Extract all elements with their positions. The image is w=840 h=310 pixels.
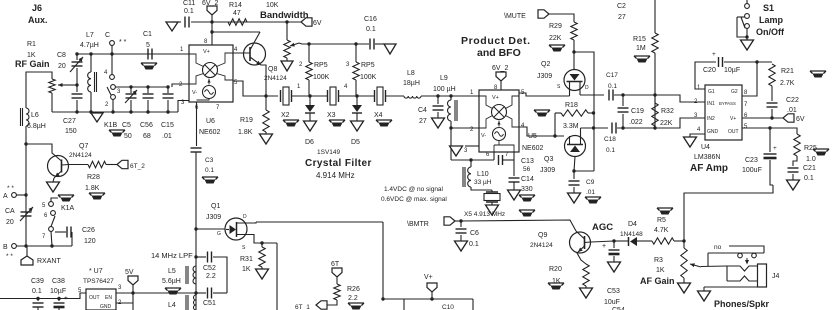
svg-text:Q9: Q9 bbox=[538, 232, 547, 239]
node C terminal bbox=[110, 41, 115, 46]
svg-text:L10: L10 bbox=[477, 171, 489, 178]
wire column to Q1 gate bbox=[196, 228, 226, 230]
ground arrow on rail bbox=[91, 113, 103, 122]
ground arrow jack sleeve bbox=[698, 291, 711, 301]
U6 internal leads bbox=[189, 54, 204, 67]
potentiometer R3 AF Gain bbox=[681, 248, 687, 278]
svg-text:.01: .01 bbox=[162, 133, 172, 140]
relay K1A arm bbox=[51, 216, 55, 227]
wire U5 pin4 to Q3 bbox=[519, 127, 564, 136]
ground arrow under R20 bbox=[580, 288, 593, 298]
svg-text:0.1: 0.1 bbox=[205, 167, 214, 174]
svg-text:NE602: NE602 bbox=[199, 129, 221, 136]
svg-text:* *: * * bbox=[119, 39, 127, 46]
box bottom block bbox=[403, 299, 405, 310]
wire C20 node to U4 pin8 bbox=[742, 62, 757, 96]
svg-text:56: 56 bbox=[523, 166, 531, 173]
svg-text:C39: C39 bbox=[31, 278, 44, 285]
svg-text:C27: C27 bbox=[63, 118, 76, 125]
chassis ground above R5 bbox=[657, 208, 673, 211]
wire U4 pin5 output bbox=[742, 127, 793, 129]
svg-text:6V: 6V bbox=[796, 116, 805, 123]
wire Q2 drain to C17 bbox=[580, 94, 604, 96]
wire AF output down to pot bbox=[684, 185, 773, 248]
wire R14 to bandwidth pot node bbox=[247, 21, 301, 23]
svg-text:G1: G1 bbox=[708, 89, 715, 95]
chassis ground left of column bbox=[165, 288, 181, 291]
svg-text:IN2: IN2 bbox=[707, 116, 715, 122]
jack RXANT bbox=[26, 246, 28, 256]
svg-text:AF Amp: AF Amp bbox=[690, 163, 728, 174]
wire U6 pin3 to rail bbox=[178, 101, 189, 113]
svg-text:J6: J6 bbox=[32, 3, 42, 13]
wire U6 pin5 to filter bbox=[233, 81, 278, 96]
svg-text:CA: CA bbox=[5, 208, 15, 215]
relay K1B pin 2 bbox=[111, 95, 116, 100]
ground arrow under C53 bbox=[608, 262, 621, 272]
svg-text:1K: 1K bbox=[27, 52, 36, 59]
svg-text:Crystal Filter: Crystal Filter bbox=[305, 158, 372, 169]
svg-text:L8: L8 bbox=[407, 70, 415, 77]
svg-text:V+: V+ bbox=[730, 116, 736, 122]
ground arrow under C4 bbox=[432, 118, 445, 128]
ground arrow U5 pin3 bbox=[450, 146, 463, 156]
chassis ground under X3 bbox=[329, 120, 345, 123]
wire R1 top loop bbox=[26, 72, 52, 108]
crystal X5 bbox=[491, 190, 493, 192]
svg-text:J4: J4 bbox=[772, 273, 780, 280]
svg-text:R15: R15 bbox=[633, 36, 646, 43]
svg-text:BYPASS: BYPASS bbox=[719, 101, 736, 106]
svg-text:120: 120 bbox=[84, 238, 96, 245]
chassis ground under C1 bbox=[141, 63, 157, 66]
crystal X4 bbox=[375, 90, 386, 102]
U4 pin4 ground bbox=[690, 134, 705, 137]
trimmer capacitor CA bbox=[21, 211, 32, 213]
svg-text:X2: X2 bbox=[281, 112, 290, 119]
svg-text:no: no bbox=[714, 244, 722, 251]
svg-text:0.1: 0.1 bbox=[804, 175, 814, 182]
inductor L7 bbox=[90, 54, 92, 72]
svg-text:L9: L9 bbox=[440, 75, 448, 82]
svg-text:AGC: AGC bbox=[592, 222, 613, 233]
svg-text:C20: C20 bbox=[703, 67, 716, 74]
svg-text:L6: L6 bbox=[31, 112, 39, 119]
capacitor C4 bbox=[437, 96, 439, 104]
capacitor C23 bbox=[769, 128, 771, 152]
capacitor C6 bbox=[460, 221, 462, 227]
chassis ground right of X5 label bbox=[519, 210, 535, 213]
IC U5 NE602 box bbox=[479, 90, 519, 152]
svg-text:C11: C11 bbox=[183, 0, 195, 7]
svg-text:1.8K: 1.8K bbox=[238, 129, 253, 136]
wire C11 to R14 bbox=[191, 21, 247, 23]
supply flag 6V right bbox=[783, 114, 794, 122]
svg-text:* *: * * bbox=[6, 253, 13, 260]
wire U7 pin2 stub bbox=[116, 302, 133, 304]
output flag 6T_1 bbox=[327, 300, 337, 305]
chassis ground right of R26 bbox=[348, 303, 364, 306]
svg-text:C4: C4 bbox=[418, 107, 427, 114]
capacitor C9 bbox=[573, 171, 575, 179]
wire R29 to Q2 gate bbox=[573, 40, 575, 70]
svg-text:1N4148: 1N4148 bbox=[620, 231, 643, 238]
relay K1B pin 4 bbox=[110, 75, 115, 80]
svg-text:2.2: 2.2 bbox=[348, 295, 358, 302]
resistor R15 bbox=[652, 33, 658, 53]
resistor R25 bbox=[793, 128, 797, 134]
svg-text:C8: C8 bbox=[57, 52, 66, 59]
svg-text:Q8: Q8 bbox=[268, 66, 277, 73]
resistor R26 bbox=[334, 284, 340, 300]
svg-text:Q2: Q2 bbox=[541, 61, 550, 68]
chassis ground K1A bbox=[58, 195, 74, 198]
capacitor C1 bbox=[148, 49, 152, 60]
svg-text:V+: V+ bbox=[203, 49, 210, 55]
svg-text:2.7K: 2.7K bbox=[780, 80, 795, 87]
svg-text:G2: G2 bbox=[731, 89, 738, 95]
wire K1A pin7 down bbox=[51, 231, 52, 246]
diode D4 1N4148 bbox=[614, 240, 628, 242]
svg-text:K1A: K1A bbox=[61, 205, 75, 212]
capacitor C52 bbox=[196, 256, 206, 258]
svg-text:68: 68 bbox=[143, 133, 151, 140]
svg-text:18µH: 18µH bbox=[403, 80, 420, 87]
wire Q3 drain to C18 bbox=[581, 127, 609, 129]
capacitor C51 bbox=[196, 292, 206, 294]
svg-text:R29: R29 bbox=[549, 23, 562, 30]
svg-text:27: 27 bbox=[419, 118, 427, 125]
wire U5 pin7 down bbox=[513, 152, 515, 176]
jack J4 body bbox=[758, 264, 767, 287]
capacitor C56 bbox=[147, 87, 149, 93]
U5 oscillator circle bbox=[493, 128, 506, 141]
switch S1 bbox=[745, 4, 750, 9]
svg-text:20: 20 bbox=[6, 219, 14, 226]
svg-text:OUT: OUT bbox=[89, 295, 100, 301]
svg-text:.01: .01 bbox=[586, 189, 595, 196]
inductor L10 bbox=[470, 160, 472, 167]
capacitor C19 bbox=[622, 95, 624, 106]
svg-text:10µF: 10µF bbox=[724, 67, 740, 74]
potentiometer R1 bbox=[49, 79, 55, 93]
svg-text:C17: C17 bbox=[606, 72, 618, 79]
svg-text:D: D bbox=[585, 85, 589, 91]
wire B rail bbox=[16, 245, 72, 247]
svg-text:C1: C1 bbox=[143, 31, 152, 38]
svg-text:0.6VDC @ max. signal: 0.6VDC @ max. signal bbox=[381, 196, 447, 203]
resistor R32 bbox=[652, 103, 658, 126]
U5 pin3 ground bbox=[465, 145, 479, 147]
capacitor C15 bbox=[167, 87, 169, 93]
svg-text:R5: R5 bbox=[657, 217, 666, 224]
svg-text:S1: S1 bbox=[763, 3, 774, 13]
wire 6V_2 branch to Q8 collector bbox=[212, 31, 260, 33]
svg-text:Product Det.: Product Det. bbox=[461, 35, 531, 47]
svg-text:C9: C9 bbox=[586, 179, 595, 186]
wire R3 wiper to jack bbox=[701, 265, 727, 268]
jack J4 sleeve line bbox=[704, 286, 757, 288]
filter wire X3-X4 bbox=[339, 95, 375, 97]
svg-text:J309: J309 bbox=[206, 214, 221, 221]
inductor L4 bbox=[194, 295, 197, 310]
trimmer capacitor C5 bbox=[130, 87, 132, 93]
svg-text:L4: L4 bbox=[168, 302, 176, 309]
ground rail under front end bbox=[52, 111, 178, 113]
svg-text:1.4VDC @ no signal: 1.4VDC @ no signal bbox=[384, 186, 444, 193]
svg-text:R20: R20 bbox=[549, 266, 562, 273]
Q7 base lead to R28 bbox=[62, 164, 89, 167]
svg-text:1K: 1K bbox=[656, 267, 665, 274]
svg-text:C51: C51 bbox=[203, 300, 216, 307]
svg-text:RF Gain: RF Gain bbox=[15, 59, 50, 69]
trimmer capacitor C8 bbox=[76, 54, 78, 60]
filter wire X2-X3 bbox=[292, 95, 328, 97]
svg-text:R26: R26 bbox=[347, 286, 360, 293]
chassis ground right of C3 bbox=[202, 177, 218, 180]
jack J4 vertical bus bbox=[726, 266, 728, 281]
U5 mixer circle bbox=[492, 105, 507, 120]
svg-text:.022: .022 bbox=[629, 119, 643, 126]
chassis ground right of R25 bbox=[813, 149, 829, 152]
svg-text:TPS76427: TPS76427 bbox=[83, 278, 114, 285]
svg-text:10uF: 10uF bbox=[604, 299, 620, 306]
resistor R31 bbox=[260, 241, 263, 244]
svg-text:100uF: 100uF bbox=[742, 167, 762, 174]
svg-text:R14: R14 bbox=[229, 2, 242, 9]
transistor Q2 J309 bbox=[564, 70, 585, 91]
svg-text:X3: X3 bbox=[327, 112, 336, 119]
svg-text:1K: 1K bbox=[242, 266, 251, 273]
ground arrow under Q7 bbox=[47, 182, 60, 192]
svg-text:and BFO: and BFO bbox=[477, 47, 521, 59]
svg-text:* U7: * U7 bbox=[89, 268, 103, 275]
wire K1B pin2 to rail bbox=[112, 99, 114, 112]
svg-text:2N4124: 2N4124 bbox=[530, 242, 553, 249]
svg-text:2.2: 2.2 bbox=[206, 273, 216, 280]
svg-text:* *: * * bbox=[7, 185, 14, 192]
svg-text:C13: C13 bbox=[521, 158, 534, 165]
svg-text:RXANT: RXANT bbox=[37, 258, 61, 265]
wire U6 pin4 to Q8 base bbox=[233, 52, 250, 54]
svg-text:C16: C16 bbox=[364, 16, 377, 23]
ground arrow under C6 bbox=[455, 241, 468, 251]
svg-text:J309: J309 bbox=[537, 73, 552, 80]
capacitor C17 bbox=[609, 90, 613, 101]
wire main RX column bbox=[195, 152, 197, 310]
capacitor C22 bbox=[767, 102, 778, 104]
wire C18 to U4 pin3 bbox=[617, 118, 705, 128]
svg-text:0.1: 0.1 bbox=[32, 288, 42, 295]
wire U7 pin3 to LPF bbox=[116, 292, 196, 294]
wire top rail to U6 pin1 bbox=[77, 53, 189, 55]
wire R1 wiper node bbox=[71, 84, 77, 86]
output flag 6T_2 bbox=[117, 160, 128, 168]
wire K1A pin5 to chassis bbox=[51, 198, 58, 202]
jack J4 actuation arrow bbox=[746, 258, 748, 261]
crystal X3 bbox=[328, 90, 339, 102]
svg-text:1SV149: 1SV149 bbox=[317, 149, 341, 156]
resistor R5 bbox=[652, 238, 674, 244]
svg-text:0.1: 0.1 bbox=[608, 83, 617, 90]
wire bandwidth wiper to varactor bias rail bbox=[299, 43, 369, 44]
ground arrow right of C16 bbox=[384, 44, 396, 54]
svg-text:C21: C21 bbox=[803, 165, 816, 172]
chassis ground right of C9 bbox=[585, 197, 601, 200]
svg-text:R1: R1 bbox=[27, 41, 36, 48]
svg-text:J309: J309 bbox=[540, 167, 555, 174]
svg-text:On/Off: On/Off bbox=[756, 27, 785, 37]
wire BMTR flag bbox=[455, 220, 461, 222]
wire MUTE branch down bbox=[574, 52, 594, 171]
wire MUTE to R29 bbox=[549, 14, 574, 22]
svg-text:10µF: 10µF bbox=[50, 288, 66, 295]
ground arrow under D5 bbox=[351, 121, 364, 131]
svg-text:GND: GND bbox=[707, 129, 719, 135]
svg-text:LM386N: LM386N bbox=[694, 154, 720, 161]
svg-text:C6: C6 bbox=[470, 230, 479, 237]
capacitor C14 bbox=[509, 177, 520, 179]
svg-text:+: + bbox=[64, 295, 68, 302]
capacitor C3 bbox=[196, 113, 198, 146]
svg-text:.01: .01 bbox=[787, 107, 797, 114]
svg-text:0.1: 0.1 bbox=[184, 8, 194, 15]
svg-text:\BMTR: \BMTR bbox=[407, 221, 429, 228]
inductor L8 bbox=[404, 96, 421, 98]
svg-text:150: 150 bbox=[65, 128, 77, 135]
ground arrow under C21 bbox=[787, 180, 800, 190]
svg-text:6T_1: 6T_1 bbox=[295, 304, 310, 310]
svg-text:G: G bbox=[217, 231, 221, 237]
potentiometer bandwidth bbox=[284, 40, 290, 58]
inductor L6 bbox=[26, 108, 29, 126]
wire bottom rail to box bbox=[383, 298, 473, 300]
IC U4 LM386 box bbox=[705, 85, 742, 140]
resistor R28 bbox=[88, 161, 106, 167]
svg-text:+: + bbox=[602, 243, 606, 250]
chassis ground left of R20 bbox=[548, 283, 564, 286]
svg-text:22K: 22K bbox=[660, 120, 673, 127]
svg-text:C23: C23 bbox=[745, 157, 758, 164]
svg-text:EN: EN bbox=[105, 295, 112, 301]
capacitor C27 bbox=[76, 85, 78, 92]
wire 5V input rail bbox=[0, 293, 86, 299]
svg-text:Bandwidth: Bandwidth bbox=[260, 10, 309, 21]
svg-text:\MUTE: \MUTE bbox=[504, 13, 526, 20]
wire Q9 to C53 node bbox=[585, 241, 615, 243]
svg-text:100K: 100K bbox=[360, 74, 377, 81]
transistor Q9 2N4124 bbox=[570, 232, 591, 253]
svg-text:C2: C2 bbox=[617, 3, 626, 10]
wire column to Q7 collector bbox=[26, 144, 52, 150]
svg-text:100K: 100K bbox=[313, 74, 330, 81]
wire C17 to U4 pin2 bbox=[614, 95, 705, 102]
svg-text:50: 50 bbox=[124, 133, 132, 140]
capacitor C13 bbox=[499, 155, 503, 165]
Q7 emitter bbox=[54, 171, 62, 178]
relay K1B pin 3 bbox=[111, 85, 116, 90]
svg-text:C15: C15 bbox=[161, 122, 174, 129]
wire R15 down to C18 line bbox=[654, 53, 656, 128]
svg-text:C56: C56 bbox=[140, 122, 153, 129]
wire U7 pin2 column bbox=[132, 293, 134, 310]
capacitor C20 gain loop bbox=[695, 62, 716, 89]
svg-text:6.8µH: 6.8µH bbox=[27, 123, 46, 130]
svg-text:GND: GND bbox=[100, 304, 112, 310]
svg-text:C53: C53 bbox=[607, 288, 620, 295]
resistor R20 bbox=[583, 264, 589, 286]
varactor diode D6 bbox=[309, 96, 311, 105]
svg-text:RP5: RP5 bbox=[361, 62, 375, 69]
wire Q3 gate bbox=[574, 157, 575, 172]
wire R21 to C22 bbox=[771, 86, 773, 101]
ground arrow U4 pin4 bbox=[684, 137, 697, 147]
svg-text:33 µH: 33 µH bbox=[474, 179, 492, 186]
chassis ground left of R15 bbox=[634, 56, 650, 59]
svg-text:AF Gain: AF Gain bbox=[640, 276, 675, 286]
inductor L5 bbox=[193, 266, 196, 284]
svg-text:U6: U6 bbox=[206, 118, 215, 125]
svg-text:V-: V- bbox=[192, 90, 197, 96]
wire AGC line to Q9 bbox=[461, 220, 576, 231]
svg-text:22K: 22K bbox=[549, 35, 562, 42]
wire L9 bottom to U5 pin2 bbox=[451, 127, 479, 129]
wire L8 to U5 pin1 bbox=[421, 95, 479, 97]
svg-text:C10: C10 bbox=[442, 304, 454, 310]
varactor diode D5 bbox=[356, 96, 358, 105]
chassis ground under R29 label bbox=[549, 45, 565, 48]
chassis ground right of R21 bbox=[810, 71, 826, 74]
transistor Q8 2N4124 bbox=[244, 43, 266, 65]
jack J4 tip contact bbox=[727, 266, 758, 271]
svg-text:20: 20 bbox=[58, 63, 66, 70]
svg-text:K1B: K1B bbox=[104, 122, 118, 129]
svg-text:5.6µH: 5.6µH bbox=[162, 278, 181, 285]
svg-text:1M: 1M bbox=[636, 45, 646, 52]
Q8 emitter bbox=[250, 57, 261, 65]
svg-text:R19: R19 bbox=[240, 117, 253, 124]
wire Q1 drain AGC line bbox=[256, 221, 383, 223]
wire U5 pin6 down bbox=[493, 152, 495, 160]
jack J4 switch common line bbox=[708, 252, 764, 254]
resistor network RP5 section 1 bbox=[308, 44, 310, 62]
crystal X2 bbox=[281, 90, 292, 102]
svg-text:V+: V+ bbox=[424, 274, 433, 281]
svg-text:C18: C18 bbox=[604, 136, 616, 143]
wire node C to K1B pin4 bbox=[111, 45, 113, 74]
svg-text:Q3: Q3 bbox=[544, 156, 553, 163]
svg-text:10K: 10K bbox=[266, 2, 279, 9]
svg-text:5: 5 bbox=[146, 42, 150, 49]
wire Q1 source down bbox=[276, 243, 278, 310]
svg-text:X4: X4 bbox=[374, 112, 383, 119]
jack J4 ring contact bbox=[727, 276, 758, 281]
svg-text:5V: 5V bbox=[125, 269, 134, 276]
svg-text:27: 27 bbox=[618, 14, 626, 21]
svg-text:C14: C14 bbox=[521, 176, 534, 183]
svg-text:C: C bbox=[105, 32, 110, 39]
svg-text:X5 4.913 MHz: X5 4.913 MHz bbox=[464, 211, 505, 218]
supply flag 6V top bbox=[301, 18, 312, 26]
svg-text:1K: 1K bbox=[552, 278, 561, 285]
svg-text:C52: C52 bbox=[203, 265, 216, 272]
chassis ground under X4 bbox=[376, 120, 392, 123]
resistor R19 bbox=[263, 110, 269, 132]
svg-text:1.8K: 1.8K bbox=[85, 185, 100, 192]
chassis ground under R28 bbox=[89, 193, 105, 196]
svg-text:C5: C5 bbox=[122, 122, 131, 129]
capacitor C26 bbox=[55, 231, 66, 233]
